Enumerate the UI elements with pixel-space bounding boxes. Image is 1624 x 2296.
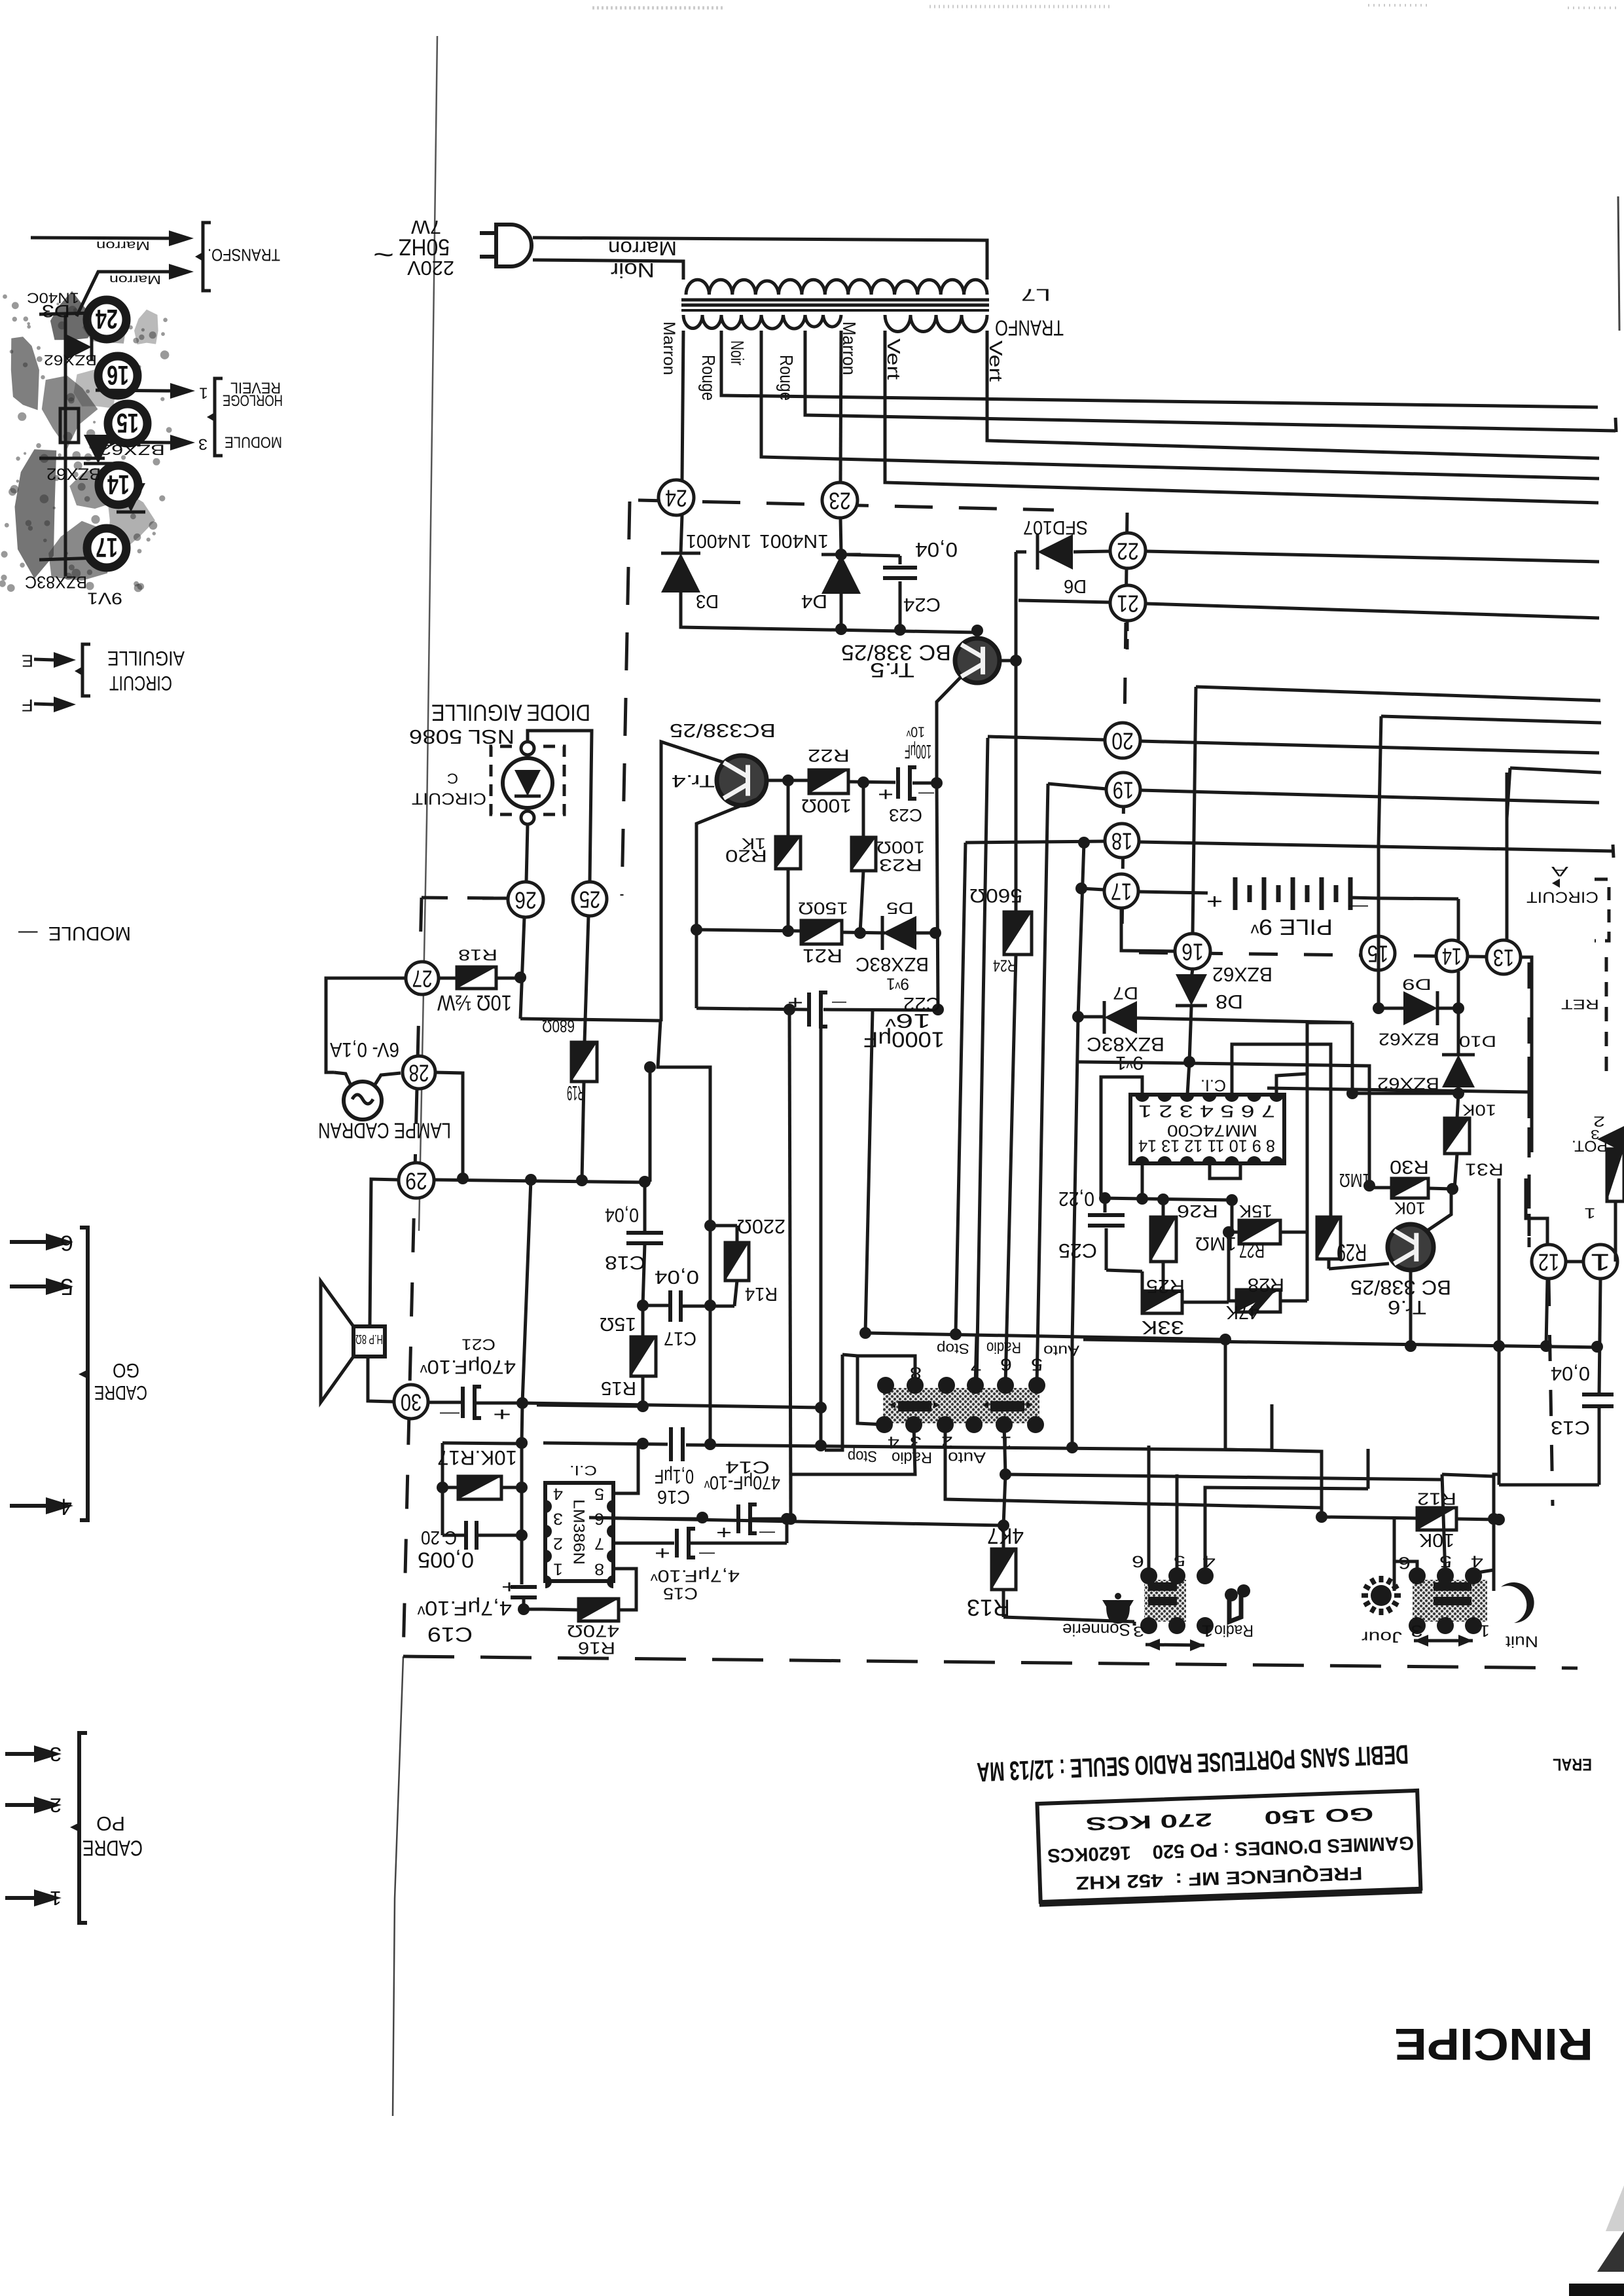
svg-text:C.I.: C.I.: [1200, 1076, 1226, 1094]
svg-text:GO: GO: [113, 1359, 139, 1382]
svg-text:0,005: 0,005: [418, 1548, 474, 1572]
svg-text:R31: R31: [1465, 1160, 1504, 1180]
svg-text:D3: D3: [42, 301, 70, 321]
svg-text:Radio: Radio: [892, 1448, 932, 1465]
svg-text:R30: R30: [1390, 1157, 1429, 1178]
arrow 2b: [5, 1803, 34, 1807]
svg-text:3: 3: [50, 1743, 62, 1766]
arrow 4: [10, 1504, 46, 1508]
svg-text:C: C: [447, 770, 458, 786]
wire D8 into IC pin5: [1187, 1062, 1189, 1095]
svg-text:1000μF: 1000μF: [863, 1027, 945, 1051]
svg-text:6: 6: [594, 1510, 604, 1527]
svg-text:MM74C00: MM74C00: [1167, 1121, 1257, 1139]
wire C23 right to Tr.5 emitter vertical: [937, 782, 940, 785]
svg-text:NSL 5086: NSL 5086: [409, 725, 514, 748]
svg-text:1: 1: [1201, 1622, 1214, 1639]
vertical from C22 right area down to switch top rail: [865, 1010, 873, 1333]
svg-text:Stop: Stop: [937, 1340, 969, 1357]
facing page edge shadow right: [1618, 196, 1619, 331]
wire R15 bottom rail left: [537, 1405, 643, 1406]
svg-text:H.P 8Ω: H.P 8Ω: [355, 1332, 383, 1346]
bracket CADRE GO: [80, 1228, 88, 1520]
arrow Marron to TRANSFO bracket: [31, 238, 169, 238]
svg-text:3: 3: [553, 1510, 563, 1527]
svg-text:100Ω: 100Ω: [876, 838, 925, 858]
svg-text:14: 14: [107, 469, 130, 500]
svg-text:C25: C25: [1058, 1239, 1097, 1262]
svg-text:0,04: 0,04: [655, 1267, 699, 1288]
svg-text:10Ω ½W: 10Ω ½W: [437, 991, 512, 1015]
plug prongs: [480, 231, 496, 235]
wire pin 1 down: [1599, 1279, 1600, 1394]
svg-text:+: +: [878, 784, 893, 805]
svg-text:14: 14: [1442, 943, 1462, 970]
svg-text:18: 18: [1111, 828, 1132, 855]
connector pin 27: [406, 962, 439, 994]
svg-text:33K: 33K: [1142, 1317, 1184, 1338]
svg-text:CADRE: CADRE: [94, 1381, 147, 1404]
svg-text:0,1μF: 0,1μF: [655, 1465, 694, 1488]
svg-text:560Ω: 560Ω: [969, 884, 1022, 906]
svg-text:R20: R20: [725, 847, 767, 866]
svg-text:10K: 10K: [1394, 1199, 1426, 1218]
moon icon Nuit: [1501, 1582, 1534, 1623]
wire pin25 down: [585, 916, 588, 1042]
connector pin 13: [1487, 940, 1521, 974]
svg-text:R12: R12: [1417, 1489, 1456, 1509]
wire Tr.6 emitter down: [1409, 1270, 1413, 1346]
svg-text:220Ω: 220Ω: [737, 1215, 785, 1238]
resistor R21 150ohm: [801, 920, 842, 944]
connector pin 16: [1175, 934, 1210, 969]
needle diode terminals: [521, 742, 534, 755]
connector pin 15: [1361, 936, 1395, 970]
wire Tr.4 collector diagonal down to junction: [696, 799, 758, 930]
svg-text:4: 4: [1471, 1552, 1483, 1570]
svg-text:D3: D3: [696, 591, 719, 612]
svg-text:A: A: [1550, 864, 1568, 879]
svg-text:CIRCUIT: CIRCUIT: [412, 790, 486, 807]
svg-text:6: 6: [1000, 1355, 1012, 1375]
svg-text:4K7: 4K7: [987, 1523, 1024, 1548]
needle diode circle NSL5086: [503, 758, 552, 808]
svg-text:6V- 0,1A: 6V- 0,1A: [329, 1038, 399, 1062]
svg-text:Tr.4: Tr.4: [672, 771, 715, 792]
svg-text:47K: 47K: [1226, 1302, 1259, 1323]
wire tap Noir long line: [761, 331, 1599, 479]
resistor R24 560ohm: [1004, 912, 1032, 955]
wire C21 right junction vertical: [522, 1403, 522, 1444]
resistor R31 10K: [1457, 1093, 1458, 1118]
wire C22 node down long vertical x1208: [789, 1010, 791, 1519]
svg-text:220V: 220V: [406, 257, 454, 280]
svg-text:Tr.5: Tr.5: [870, 659, 914, 682]
photocopy smudge blobs left edge: [0, 291, 172, 592]
svg-text:20: 20: [1111, 728, 1134, 755]
svg-text:R25: R25: [1146, 1276, 1185, 1297]
svg-text:D10: D10: [1459, 1032, 1496, 1049]
svg-text:3: 3: [1133, 1623, 1144, 1639]
sun icon Jour: [1362, 1576, 1401, 1615]
svg-text:R21: R21: [803, 945, 842, 966]
LM386 pin6 wire with C14: [613, 1518, 702, 1519]
resistor R17 10K: [458, 1476, 501, 1499]
right edge tick: [1615, 418, 1616, 432]
frequency table box: [1036, 1791, 1422, 1904]
svg-text:Vert: Vert: [884, 338, 904, 380]
scan crease fold line: [419, 36, 437, 1231]
svg-text:HORLOGE: HORLOGE: [223, 391, 283, 408]
svg-text:4: 4: [553, 1485, 563, 1503]
wire to R13: [1003, 1474, 1005, 1525]
svg-text:1N4001: 1N4001: [759, 531, 829, 552]
wire v1208 down join C14: [789, 1474, 793, 1519]
wire pin23 to D4: [840, 518, 841, 552]
svg-text:BC338/25: BC338/25: [670, 720, 776, 741]
svg-text:R13: R13: [967, 1595, 1010, 1621]
diode D5 BZX83C 9V1: [882, 916, 916, 950]
svg-text:680Ω: 680Ω: [542, 1017, 575, 1036]
long wires to these verticals: [1196, 687, 1600, 701]
svg-text:D7: D7: [1113, 983, 1138, 1004]
page corner shadow bottom-right (gutter): [1569, 2284, 1624, 2296]
Tr.4 mesh lower wires: [658, 1021, 710, 1305]
connector pin 28: [403, 1056, 435, 1089]
svg-text:2: 2: [50, 1794, 62, 1817]
resistor R20 1K: [776, 837, 801, 869]
wire R19 bottom to pin29 line: [582, 1082, 584, 1180]
dashed line right of MM74C00 region: [1528, 1057, 1531, 1247]
svg-text:Marron: Marron: [608, 237, 677, 260]
svg-text:16: 16: [107, 360, 129, 391]
capacitor C17 0.04: [637, 1300, 649, 1311]
connector pin 12: [1532, 1245, 1566, 1279]
svg-text:Stop: Stop: [848, 1447, 877, 1464]
svg-text:F: F: [22, 696, 33, 716]
svg-text:17: 17: [1111, 879, 1132, 905]
svg-text:C17: C17: [664, 1328, 696, 1349]
switch Nuit-Jour pins: [1409, 1567, 1426, 1584]
note icon Radio: [1229, 1591, 1241, 1622]
svg-text:23: 23: [829, 488, 851, 515]
module dashed boundary bottom edge: [403, 1656, 1578, 1668]
main horizontal rail y2056: [1083, 1339, 1599, 1347]
connector pin 25: [573, 882, 607, 916]
wire C19 bottom joins R16 wire: [518, 1603, 530, 1615]
LM386 pin5 wire up: [613, 1444, 638, 1493]
svg-text:LAMPE CADRAN: LAMPE CADRAN: [318, 1118, 451, 1142]
svg-text:6: 6: [60, 1231, 73, 1255]
connector pin 29: [399, 1163, 434, 1198]
wire D4 top to C24: [841, 555, 900, 556]
diode D6 SFD107: [1016, 551, 1026, 554]
svg-text:ERAL: ERAL: [1553, 1755, 1592, 1775]
pin21 dashed stub below: [1126, 621, 1129, 651]
long verticals from distribution to module: [956, 843, 965, 1333]
svg-text:Auto: Auto: [948, 1448, 986, 1465]
switch Sonnerie pins: [1140, 1567, 1157, 1584]
svg-text:—: —: [759, 1524, 775, 1542]
module dashed boundary left edge upper: [622, 501, 630, 896]
connector pin 14: [1436, 940, 1468, 972]
bell icon Sonnerie: [1102, 1600, 1134, 1624]
switch ARS left bracket: [857, 1356, 915, 1425]
capacitor C21 470uF: [429, 1401, 461, 1404]
svg-text:CIRCUIT: CIRCUIT: [1526, 888, 1598, 905]
resistor R15 15ohm: [631, 1337, 656, 1376]
svg-text:R15: R15: [601, 1378, 636, 1399]
wire R21 row: [696, 930, 801, 931]
wire plug to transformer bottom: [533, 260, 683, 280]
bracket TRANSFO: [203, 223, 211, 291]
transistor Tr.5 BC338/25: [955, 638, 1000, 683]
svg-text:5: 5: [1031, 1355, 1043, 1375]
svg-text:2: 2: [1593, 1113, 1605, 1129]
svg-text:D4: D4: [801, 591, 827, 612]
arrow 6: [10, 1240, 46, 1244]
switch Sonnerie wires: [1147, 1446, 1151, 1576]
vertical R22 left node down to R20: [787, 780, 790, 837]
switch ARS slider arrows: [889, 1402, 895, 1408]
svg-text:1: 1: [199, 384, 208, 401]
speaker HP 8ohm: [353, 1326, 385, 1357]
svg-text:10K: 10K: [1462, 1101, 1496, 1118]
module dashed boundary left edge lower: [403, 898, 422, 1656]
svg-text:TRANSFO.: TRANSFO.: [208, 246, 280, 265]
svg-text:1: 1: [1590, 1249, 1611, 1276]
svg-text:+: +: [501, 1577, 517, 1597]
connector pin 24: [659, 480, 694, 515]
wire junction down to C22 row: [695, 931, 698, 1008]
svg-text:BZX62: BZX62: [46, 465, 101, 483]
svg-text:RINCIPE: RINCIPE: [1394, 2019, 1593, 2069]
svg-text:4: 4: [60, 1494, 72, 1520]
wire tap Vert long line: [885, 331, 1598, 503]
vertical Tr.5 emitter line down through D5 to C22: [937, 782, 938, 1010]
wire D7 line down to D10 bottom: [1352, 1023, 1458, 1093]
svg-text:CIRCUIT: CIRCUIT: [109, 672, 172, 695]
pin22 long line right: [1146, 551, 1599, 562]
svg-text:—: —: [1348, 898, 1368, 916]
connector pin 20: [1105, 723, 1140, 758]
ground rail under rectifier: [681, 592, 977, 632]
svg-text:—: —: [832, 995, 846, 1011]
wire tap Marron2 to pin 23: [840, 331, 841, 483]
svg-text:BZX62: BZX62: [1212, 963, 1272, 986]
scanner noise top edge: [592, 5, 1617, 8]
wire needle diode top loop to pin 25: [528, 731, 592, 882]
wire tap Vert2 long line: [987, 331, 1599, 458]
bold pin 24 left cluster: [87, 300, 126, 339]
bold pin 17 left cluster: [87, 528, 126, 568]
switch ARS pins: [877, 1377, 894, 1394]
speaker bottom lead: [368, 1357, 393, 1402]
capacitor C13: [1582, 1393, 1614, 1396]
svg-text:Marron: Marron: [96, 238, 150, 252]
wire Tr.6 base: [1329, 1264, 1389, 1269]
capacitor C19 4.7uF: [520, 1535, 524, 1584]
svg-text:7 6 5 4 3 2 1: 7 6 5 4 3 2 1: [1138, 1102, 1275, 1121]
svg-text:BC 338/25: BC 338/25: [1350, 1276, 1451, 1300]
svg-text:D6: D6: [1064, 576, 1087, 597]
diode D7 BZX83C: [1104, 1001, 1137, 1034]
svg-text:15Ω: 15Ω: [600, 1314, 636, 1335]
svg-text:150Ω: 150Ω: [798, 899, 848, 919]
svg-text:Nuit: Nuit: [1505, 1632, 1538, 1649]
trimmer R28 47K: [1236, 1290, 1280, 1312]
svg-text:15K: 15K: [1239, 1201, 1272, 1222]
wire pin29 line right: [434, 1180, 648, 1182]
svg-text:Marron: Marron: [109, 272, 161, 286]
pin21 wire left: [1019, 600, 1110, 602]
capacitor C24 0.04: [899, 556, 902, 564]
cluster diode fragments: [110, 418, 139, 446]
diode D3 1N4001: [661, 553, 700, 592]
wire R13 bottom to Sonnerie pin3: [1003, 1617, 1134, 1622]
right edge tick 2: [1613, 845, 1614, 858]
switch ARS bottom wires: [945, 1425, 1322, 1508]
label 680 R19: [571, 1042, 597, 1082]
svg-text:29: 29: [405, 1168, 427, 1195]
switch Nuit-Jour hatched block: [1413, 1580, 1487, 1622]
resistor R22 100ohm: [809, 770, 848, 793]
svg-text:5: 5: [594, 1485, 604, 1503]
wire pin26 left dashes: [482, 897, 508, 900]
svg-text:1N4001: 1N4001: [686, 531, 751, 552]
arrow 1b: [5, 1896, 34, 1900]
wire pin13 right down: [1521, 957, 1532, 1152]
LM386 pin7 wire with C15: [613, 1542, 674, 1545]
diode D10 BZX62: [1457, 1008, 1460, 1055]
cluster wires fragments: [39, 313, 95, 314]
resistor R27 15K: [1231, 1200, 1234, 1232]
vertical v1254: [820, 1021, 823, 1446]
svg-text:RET: RET: [1561, 996, 1599, 1011]
module dashed boundary pins 16-13 row: [1139, 953, 1525, 957]
wire tap Marron to pin 24: [682, 331, 683, 480]
svg-text:D8: D8: [1216, 991, 1243, 1012]
diode D4 1N4001: [821, 555, 861, 594]
svg-text:4,7μF.10ᵛ: 4,7μF.10ᵛ: [417, 1597, 512, 1620]
wire rail stub up at 1943: [1271, 1404, 1274, 1450]
svg-text:R24: R24: [993, 957, 1017, 974]
svg-text:1: 1: [1479, 1622, 1490, 1639]
mains plug 220V: [496, 225, 532, 266]
svg-text:+: +: [1206, 890, 1223, 913]
switch Auto-Radio-Stop hatched block: [883, 1388, 1039, 1423]
capacitor C25 0.22: [1104, 1198, 1107, 1212]
capacitor C23 100uF 10V: [896, 767, 900, 799]
switch arrows Sonnerie-Radio: [1146, 1645, 1204, 1645]
transformer TRANFO L7 primary winding: [686, 280, 987, 295]
svg-text:10ᵛ: 10ᵛ: [906, 723, 925, 740]
svg-text:28: 28: [409, 1060, 429, 1087]
capacitor C22 1000uF 16V: [696, 1008, 808, 1010]
svg-text:—: —: [918, 786, 934, 803]
svg-text:+: +: [493, 1404, 511, 1425]
switch Sonnerie-Radio hatched block: [1144, 1580, 1186, 1622]
svg-text:C16: C16: [657, 1487, 690, 1508]
wire pin29 left to speaker: [370, 1179, 399, 1325]
resistor R18 10ohm: [439, 977, 457, 980]
capacitor C20 0.005: [464, 1521, 468, 1550]
svg-text:BZX62: BZX62: [1379, 1030, 1439, 1049]
svg-text:R14: R14: [745, 1284, 778, 1305]
svg-text:AIGUILLE: AIGUILLE: [107, 647, 185, 670]
svg-text:C15: C15: [663, 1584, 698, 1602]
svg-text:R23: R23: [879, 856, 922, 875]
svg-text:8 9 10 11 12 13 14: 8 9 10 11 12 13 14: [1138, 1137, 1275, 1156]
arrow 1 to HORLOGE REVEIL: [96, 390, 170, 391]
bracket circuit A: [1595, 879, 1609, 941]
svg-text:R27: R27: [1239, 1239, 1265, 1262]
svg-text:SFD107: SFD107: [1023, 517, 1088, 538]
svg-text:19: 19: [1113, 777, 1134, 804]
wire tap Rouge long line: [721, 331, 1598, 407]
verticals battery area: [1377, 845, 1380, 936]
svg-text:1: 1: [1584, 1205, 1596, 1221]
module dashed boundary right lower: [1528, 962, 1531, 1247]
wire above IC from v1645: [1078, 1062, 1189, 1063]
arrow 3 to MODULE: [104, 442, 170, 443]
svg-text:Vert: Vert: [986, 340, 1006, 382]
svg-text:2: 2: [553, 1535, 563, 1552]
connector pin 18: [1105, 824, 1139, 858]
svg-text:LM386N: LM386N: [569, 1499, 587, 1565]
svg-text:R28: R28: [1248, 1275, 1284, 1296]
bracket HORLOGE REVEIL MODULE: [215, 378, 223, 456]
lamp loop wires: [326, 978, 406, 1072]
diode D8 BZX62: [1191, 969, 1193, 979]
arrow 3b: [5, 1752, 34, 1756]
svg-text:100μF: 100μF: [905, 740, 931, 762]
svg-text:C24: C24: [903, 594, 941, 615]
switch ARS wires top: [865, 1333, 1225, 1339]
label CADRE PO: [70, 1823, 79, 1832]
svg-text:C 20: C 20: [421, 1527, 457, 1548]
capacitor C18: [643, 1182, 647, 1231]
svg-text:—: —: [440, 1405, 460, 1423]
cluster resistor 10K vertical: [60, 409, 79, 443]
svg-text:13: 13: [1493, 945, 1514, 972]
svg-text:PO: PO: [96, 1812, 125, 1835]
switch Nuit-Jour wires: [1394, 1520, 1417, 1576]
diode BZX62 below pin 15: [84, 435, 113, 464]
svg-text:R22: R22: [808, 746, 850, 766]
svg-text:C21: C21: [461, 1335, 496, 1352]
resistor R12 10K: [1417, 1508, 1456, 1530]
svg-text:MODULE —: MODULE —: [18, 922, 131, 944]
svg-text:Radio: Radio: [1214, 1622, 1254, 1639]
arrow 5: [10, 1285, 46, 1288]
svg-text:22: 22: [1117, 538, 1139, 565]
resistor R13 4K7: [1002, 1525, 1005, 1549]
resistor R26 1M: [1162, 1199, 1165, 1217]
wire R30 left up: [1189, 1063, 1369, 1186]
wire R14 top: [710, 1224, 737, 1228]
svg-text:6: 6: [1132, 1552, 1144, 1570]
IC right entries: [1276, 1023, 1352, 1095]
wire tap Rouge2 long line: [805, 331, 1615, 431]
svg-text:26: 26: [514, 887, 537, 914]
svg-text:10K.R17: 10K.R17: [437, 1446, 517, 1470]
svg-text:12: 12: [1538, 1249, 1559, 1276]
LM386 pin bumps and numbers: [545, 1500, 552, 1513]
vertical x2290: [1498, 1178, 1501, 1346]
wire x811 vertical from pin29 line to C21: [522, 1180, 531, 1403]
svg-text:C.I.: C.I.: [569, 1463, 597, 1478]
